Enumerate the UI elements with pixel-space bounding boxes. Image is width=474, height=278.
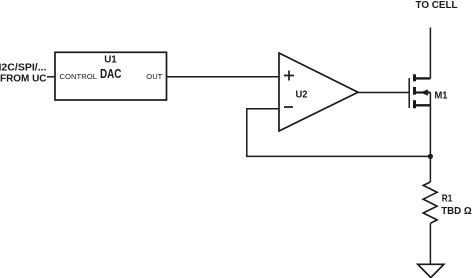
wire resistor to ground <box>429 223 431 264</box>
wire op-amp output to M1 gate <box>358 92 409 94</box>
ground <box>418 264 444 277</box>
wire M1 source down to junction <box>429 105 431 156</box>
node junction dot <box>428 154 433 159</box>
wire from FROM UC to DAC CONTROL pin <box>47 76 55 78</box>
svg-text:M1: M1 <box>435 90 448 102</box>
svg-text:OUT: OUT <box>146 72 162 81</box>
wire M1 drain up to TO CELL <box>429 28 431 79</box>
resistor R1 <box>423 182 472 223</box>
wire feedback loop from op-amp - input to source node <box>247 109 431 157</box>
DAC U1 <box>55 52 167 100</box>
svg-text:FROM UC: FROM UC <box>0 73 47 85</box>
svg-text:CONTROL: CONTROL <box>60 72 98 81</box>
wire junction to resistor R1 <box>429 156 431 182</box>
op-amp U2 <box>279 53 358 131</box>
svg-text:R1: R1 <box>442 193 453 205</box>
svg-text:U1: U1 <box>104 53 117 65</box>
svg-text:DAC: DAC <box>100 67 122 81</box>
svg-text:TBD Ω: TBD Ω <box>441 205 472 217</box>
wire DAC OUT to op-amp + input <box>167 76 280 78</box>
svg-text:TO CELL: TO CELL <box>416 0 459 11</box>
transistor M1 (NMOS) <box>409 74 447 108</box>
svg-text:U2: U2 <box>296 89 308 101</box>
node I2C/SPI/... FROM UC input label <box>0 62 47 85</box>
